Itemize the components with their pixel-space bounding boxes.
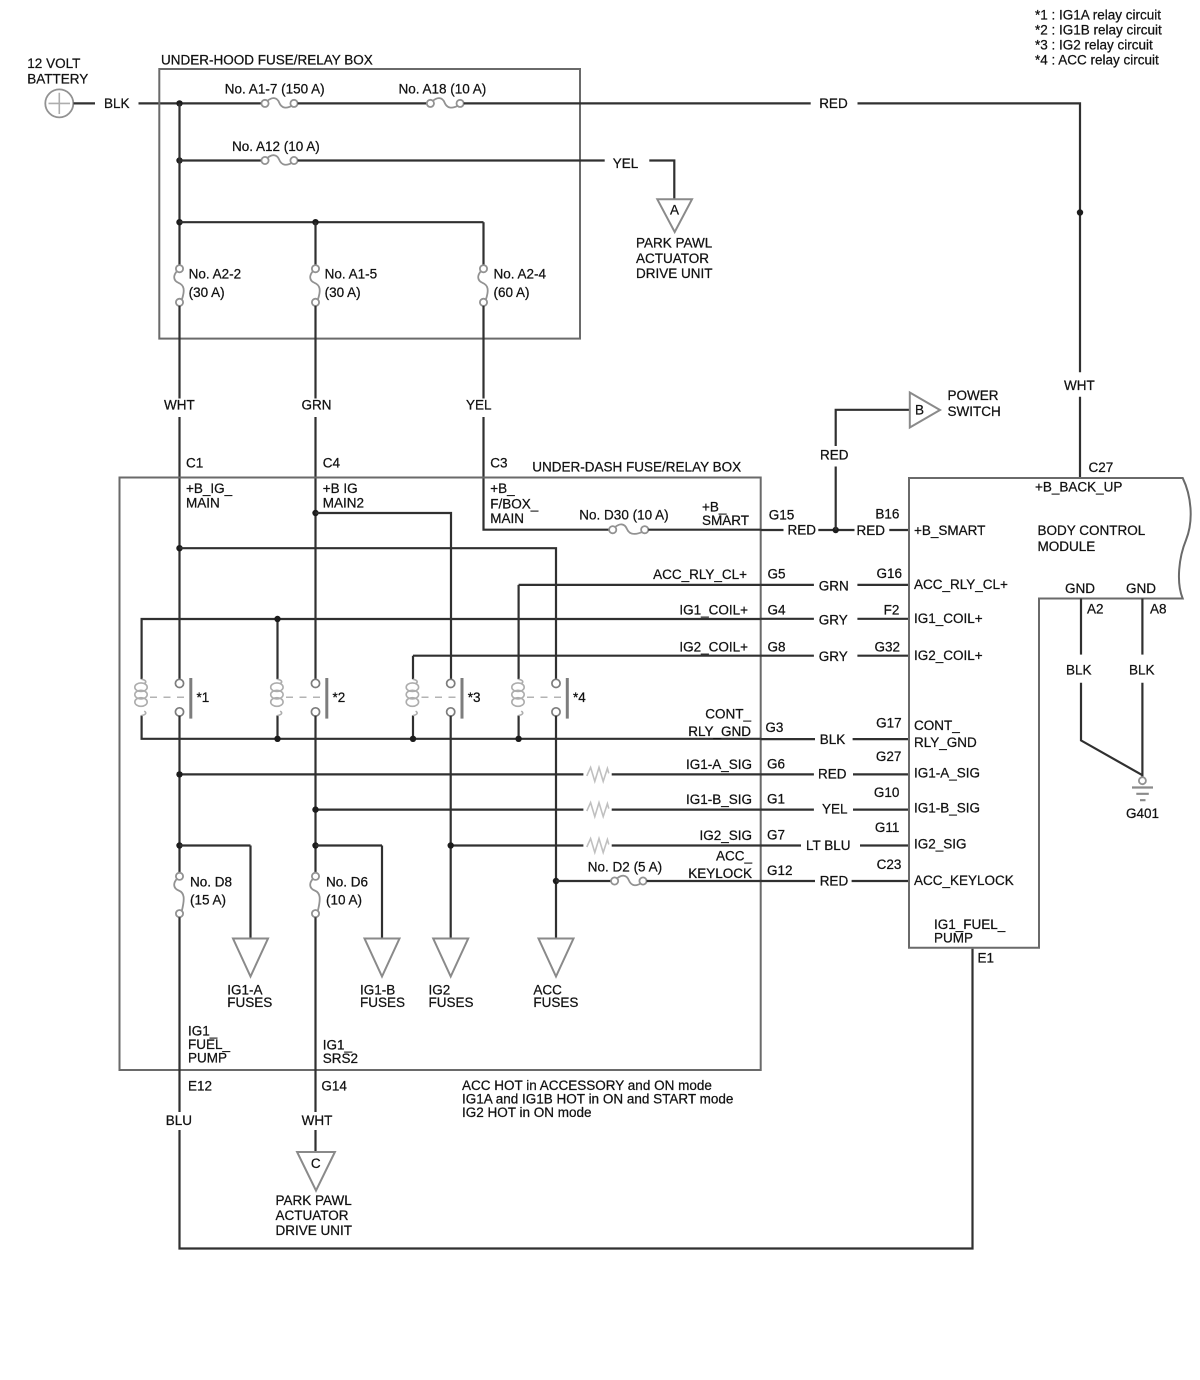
svg-text:(10 A): (10 A) <box>326 892 362 907</box>
relay *1 IG1A <box>135 678 209 719</box>
fuse No. D30 (10 A) <box>579 508 668 534</box>
wire IG1_COIL+ bus to relay 1 and 2 coils <box>142 619 761 679</box>
svg-text:IG1-B_SIG: IG1-B_SIG <box>914 801 980 816</box>
svg-text:BLK: BLK <box>820 732 846 747</box>
svg-text:RED: RED <box>819 96 848 111</box>
svg-text:MAIN2: MAIN2 <box>323 496 364 511</box>
label PARK PAWL ACTUATOR DRIVE UNIT (top) <box>636 236 713 282</box>
svg-text:WHT: WHT <box>1064 378 1095 393</box>
wire D30 to G15 pin <box>648 529 760 531</box>
wire relay2 contact down <box>314 716 316 873</box>
svg-text:DRIVE UNIT: DRIVE UNIT <box>636 266 713 281</box>
svg-text:POWER: POWER <box>948 388 999 403</box>
svg-text:*3: *3 <box>468 690 481 705</box>
svg-text:BODY CONTROL: BODY CONTROL <box>1038 523 1146 538</box>
svg-text:G14: G14 <box>321 1078 347 1093</box>
svg-text:YEL: YEL <box>613 156 639 171</box>
resistor coil IG1-A_SIG <box>587 767 609 781</box>
svg-text:B: B <box>915 403 924 418</box>
svg-text:No. A1-7 (150 A): No. A1-7 (150 A) <box>225 81 325 96</box>
svg-text:MAIN: MAIN <box>490 511 524 526</box>
node junction on right red wire <box>1077 209 1083 215</box>
svg-text:(30 A): (30 A) <box>325 285 361 300</box>
svg-text:GND: GND <box>1065 581 1095 596</box>
node junction col2 IG1-B fuses branch <box>312 842 318 848</box>
under-hood fuse/relay box outline <box>159 69 580 339</box>
svg-text:G6: G6 <box>767 756 785 771</box>
node junction col1 IG1-A fuses branch <box>176 842 182 848</box>
fuse No. A1-5 (30 A) <box>310 265 377 306</box>
svg-text:FUSES: FUSES <box>429 995 474 1010</box>
svg-text:+B_: +B_ <box>490 481 515 496</box>
wire ACC keylock to D2 fuse <box>556 880 611 882</box>
svg-text:G7: G7 <box>767 828 785 843</box>
connector C triangle <box>297 1152 335 1191</box>
svg-text:BLK: BLK <box>104 96 130 111</box>
svg-text:IG1-A_SIG: IG1-A_SIG <box>686 757 752 772</box>
svg-text:F2: F2 <box>884 602 900 617</box>
svg-text:ACC_RLY_CL+: ACC_RLY_CL+ <box>653 567 747 582</box>
svg-text:C4: C4 <box>323 455 341 470</box>
svg-text:RED: RED <box>820 447 849 462</box>
svg-text:MAIN: MAIN <box>186 496 220 511</box>
node junction relay4 coil bottom <box>515 736 521 742</box>
svg-text:E1: E1 <box>978 951 995 966</box>
svg-text:LT BLU: LT BLU <box>806 838 851 853</box>
wire E12 BLU to E1 bottom run <box>180 949 973 1249</box>
svg-text:PARK PAWL: PARK PAWL <box>276 1193 353 1208</box>
svg-text:No. D6: No. D6 <box>326 874 368 889</box>
relay *4 ACC <box>512 678 586 719</box>
svg-text:No. A18 (10 A): No. A18 (10 A) <box>399 81 487 96</box>
svg-text:SMART: SMART <box>702 513 749 528</box>
svg-text:ACC_RLY_CL+: ACC_RLY_CL+ <box>914 577 1008 592</box>
svg-text:C3: C3 <box>490 455 507 470</box>
node junction row3 col2 <box>312 219 318 225</box>
label CONT_RLY_GND (under-dash) <box>688 707 751 739</box>
wire A8 ground BLK lower <box>1141 683 1143 777</box>
wire G8 to G32 <box>761 655 909 657</box>
wire row3 horizontal bus <box>180 221 484 223</box>
fuse No. A12 (10 A) <box>232 139 320 165</box>
svg-text:YEL: YEL <box>822 802 848 817</box>
wire A12 to YEL label <box>298 159 605 161</box>
svg-text:IG2_COIL+: IG2_COIL+ <box>679 639 748 654</box>
svg-text:BLK: BLK <box>1129 662 1155 677</box>
svg-text:G15: G15 <box>769 508 795 523</box>
label IG1_FUEL_PUMP (under-dash) <box>188 1024 231 1066</box>
wire relay4 contact down to ACC fuses <box>555 716 557 939</box>
fuse No. D6 (10 A) <box>310 873 368 918</box>
wire CONT_RLY_GND coil ground bus <box>142 716 761 739</box>
wire column1 vertical battery bus <box>178 103 180 265</box>
svg-text:CONT_: CONT_ <box>705 707 751 722</box>
label IG1_FUEL_PUMP (BCM) <box>934 917 1006 946</box>
svg-text:WHT: WHT <box>302 1113 333 1128</box>
svg-text:IG1-B_SIG: IG1-B_SIG <box>686 792 752 807</box>
node junction relay2 coil bottom <box>274 736 280 742</box>
svg-text:ACC_: ACC_ <box>716 849 753 864</box>
svg-text:ACTUATOR: ACTUATOR <box>276 1208 349 1223</box>
svg-text:G16: G16 <box>876 566 902 581</box>
wire col2 GRN to relay 2 contact <box>314 417 316 679</box>
svg-text:+B_SMART: +B_SMART <box>914 523 985 538</box>
svg-text:G8: G8 <box>768 639 786 654</box>
svg-text:*2: *2 <box>333 690 346 705</box>
node junction relay2 to IG1-B_SIG <box>312 806 318 812</box>
svg-text:IG2_COIL+: IG2_COIL+ <box>914 648 983 663</box>
svg-text:G27: G27 <box>876 749 902 764</box>
label +B IG MAIN2 <box>323 481 364 511</box>
svg-text:PARK PAWL: PARK PAWL <box>636 236 713 251</box>
svg-text:KEYLOCK: KEYLOCK <box>688 866 752 881</box>
svg-text:G32: G32 <box>874 639 900 654</box>
wire G12 to C23 <box>761 880 909 882</box>
wire A2 ground BLK lower <box>1081 683 1142 775</box>
svg-text:C: C <box>311 1156 321 1171</box>
svg-text:ACC_KEYLOCK: ACC_KEYLOCK <box>914 873 1014 888</box>
svg-text:PUMP: PUMP <box>934 931 973 946</box>
label CONT_RLY_GND (BCM) <box>914 718 977 750</box>
battery B1 12 VOLT BATTERY <box>27 56 88 117</box>
wire col1 below fuse to WHT <box>178 306 180 399</box>
svg-text:G17: G17 <box>876 715 902 730</box>
wire relay1 contact down <box>178 716 180 873</box>
fuse No. D8 (15 A) <box>174 873 232 918</box>
svg-text:UNDER-HOOD FUSE/RELAY BOX: UNDER-HOOD FUSE/RELAY BOX <box>161 53 373 68</box>
svg-text:G12: G12 <box>767 863 793 878</box>
wire column2 vertical <box>314 222 316 265</box>
svg-text:GND: GND <box>1126 581 1156 596</box>
wire MAIN2 branch to relay 3 contact <box>316 513 452 679</box>
svg-text:RED: RED <box>857 523 886 538</box>
label IG1_SRS2 <box>323 1037 358 1066</box>
fuse triangle IG1-A FUSES <box>227 939 272 1011</box>
svg-text:G11: G11 <box>875 820 900 835</box>
svg-text:RED: RED <box>788 523 817 538</box>
node junction row3 col1 <box>176 219 182 225</box>
wire YEL to connector A <box>649 161 674 200</box>
wire col2 below fuse to GRN <box>314 306 316 399</box>
svg-text:No. D8: No. D8 <box>190 874 232 889</box>
svg-text:UNDER-DASH FUSE/RELAY BOX: UNDER-DASH FUSE/RELAY BOX <box>532 459 741 474</box>
svg-text:WHT: WHT <box>164 398 195 413</box>
wire BLK to under-hood box <box>139 102 262 104</box>
label POWER SWITCH <box>948 388 1001 419</box>
node junction col2 MAIN2 branch <box>312 510 318 516</box>
legend relay circuit notes <box>1035 8 1162 68</box>
wire A18 to RED label <box>464 102 811 104</box>
svg-text:IG1_COIL+: IG1_COIL+ <box>679 603 748 618</box>
svg-text:G5: G5 <box>768 566 786 581</box>
svg-text:BLU: BLU <box>166 1113 192 1128</box>
wire G7 to G11 <box>761 844 909 846</box>
svg-text:A: A <box>670 203 679 218</box>
node junction relay3 coil bottom <box>410 736 416 742</box>
svg-text:No. D30 (10 A): No. D30 (10 A) <box>579 508 668 523</box>
wire G5 to G16 <box>761 584 909 586</box>
under-dash fuse/relay box outline <box>120 478 761 1071</box>
relay *3 IG2 <box>406 678 480 719</box>
wire IG1-B_SIG inside box <box>316 808 761 810</box>
svg-text:RLY_GND: RLY_GND <box>688 724 751 739</box>
svg-text:+B IG: +B IG <box>323 481 358 496</box>
node junction relay4 to ACC keylock <box>553 878 559 884</box>
wire G14 WHT to connector C <box>314 1130 316 1152</box>
wire G15 to B16 +B_SMART row <box>761 529 909 531</box>
svg-text:C1: C1 <box>186 455 203 470</box>
svg-text:*1: *1 <box>197 690 210 705</box>
svg-text:GRY: GRY <box>819 649 848 664</box>
node junction relay1 to IG1-A_SIG <box>176 771 182 777</box>
svg-text:RLY_GND: RLY_GND <box>914 735 977 750</box>
svg-text:IG2_SIG: IG2_SIG <box>914 837 967 852</box>
svg-text:A2: A2 <box>1087 602 1104 617</box>
fuse triangle IG1-B FUSES <box>360 939 405 1011</box>
fuse triangle ACC FUSES <box>533 939 578 1011</box>
wire battery positive lead <box>74 102 96 104</box>
body control module outline <box>909 478 1191 948</box>
resistor coil IG2_SIG <box>587 839 609 853</box>
svg-text:12 VOLT: 12 VOLT <box>27 56 80 71</box>
svg-text:A8: A8 <box>1150 602 1167 617</box>
svg-text:BATTERY: BATTERY <box>27 71 88 86</box>
ground G401 symbol <box>1126 777 1159 821</box>
svg-text:CONT_: CONT_ <box>914 718 960 733</box>
wire G3 to G17 <box>761 738 909 740</box>
label PARK PAWL ACTUATOR DRIVE UNIT (bottom) <box>276 1193 353 1238</box>
wire branch to IG1-B fuses triangle <box>316 846 383 939</box>
svg-text:C23: C23 <box>877 857 902 872</box>
svg-text:IG1_COIL+: IG1_COIL+ <box>914 611 983 626</box>
wire G6 to G27 <box>761 773 909 775</box>
svg-text:(30 A): (30 A) <box>189 285 225 300</box>
svg-text:RED: RED <box>820 874 849 889</box>
wire col2 below D6 to G14 and WHT <box>314 917 316 1112</box>
svg-text:G10: G10 <box>874 785 900 800</box>
wire col1 WHT to relay 1 contact <box>178 417 180 679</box>
label ACC_KEYLOCK (under-dash) <box>688 849 752 882</box>
node junction battery bus row2 <box>176 157 182 163</box>
svg-text:MODULE: MODULE <box>1038 539 1096 554</box>
svg-text:RED: RED <box>818 766 847 781</box>
label +B_IG_MAIN <box>186 481 233 511</box>
wire A2 ground BLK upper <box>1080 599 1082 655</box>
wire power switch vertical <box>836 410 910 530</box>
svg-text:IG2 HOT in ON mode: IG2 HOT in ON mode <box>462 1105 592 1120</box>
fuse No. A1-7 (150 A) <box>225 81 325 107</box>
node junction relay2 coil top <box>274 616 280 622</box>
svg-text:No. D2 (5 A): No. D2 (5 A) <box>588 859 662 874</box>
svg-text:*4: *4 <box>573 690 586 705</box>
wire col3 below fuse to YEL <box>482 306 484 399</box>
svg-text:BLK: BLK <box>1066 662 1092 677</box>
wire branch to IG1-A fuses triangle <box>180 846 251 939</box>
resistor coil IG1-B_SIG <box>587 803 609 817</box>
fuse No. A2-4 (60 A) <box>478 265 546 306</box>
svg-text:FUSES: FUSES <box>360 995 405 1010</box>
node junction col1 +B_IG_MAIN bus <box>176 545 182 551</box>
wire IG2_COIL+ row to relay 3 coil <box>413 656 761 680</box>
svg-text:(60 A): (60 A) <box>494 285 530 300</box>
svg-text:FUSES: FUSES <box>227 995 272 1010</box>
wire relay3 contact down to IG2 fuses <box>450 716 452 939</box>
svg-text:FUSES: FUSES <box>533 995 578 1010</box>
wire ACC_RLY_CL+ row to relay 4 coil <box>519 585 761 679</box>
svg-text:SRS2: SRS2 <box>323 1051 358 1066</box>
label BODY CONTROL MODULE <box>1038 523 1146 554</box>
wire WHT down to C27 <box>1079 397 1081 478</box>
svg-text:IG2_SIG: IG2_SIG <box>699 828 752 843</box>
svg-text:SWITCH: SWITCH <box>948 404 1001 419</box>
wire +B_IG_MAIN bus to relay 4 contact <box>180 548 557 679</box>
svg-text:YEL: YEL <box>466 398 492 413</box>
fuse No. D2 (5 A) <box>588 859 662 885</box>
svg-text:E12: E12 <box>188 1078 212 1093</box>
relay *2 IG1B <box>271 678 346 719</box>
svg-text:*1 : IG1A relay circuit: *1 : IG1A relay circuit <box>1035 8 1161 23</box>
wire IG1-A_SIG inside box <box>180 773 761 775</box>
svg-text:GRN: GRN <box>302 398 332 413</box>
svg-text:No. A2-4: No. A2-4 <box>494 267 547 282</box>
fuse No. A2-2 (30 A) <box>174 265 241 306</box>
svg-text:*2 : IG1B relay circuit: *2 : IG1B relay circuit <box>1035 23 1162 38</box>
svg-text:B16: B16 <box>875 507 899 522</box>
svg-text:No. A12 (10 A): No. A12 (10 A) <box>232 139 320 154</box>
svg-text:G401: G401 <box>1126 806 1159 821</box>
svg-text:DRIVE UNIT: DRIVE UNIT <box>276 1223 353 1238</box>
wire IG2_SIG inside box <box>451 844 761 846</box>
svg-text:IG1-A_SIG: IG1-A_SIG <box>914 765 980 780</box>
wire between fuses A1-7 and A18 <box>298 102 427 104</box>
connector A triangle <box>657 199 692 232</box>
label +B_F/BOX_MAIN <box>490 481 539 526</box>
svg-text:GRN: GRN <box>819 578 849 593</box>
svg-text:F/BOX_: F/BOX_ <box>490 497 539 512</box>
wire col3 YEL to D30 fuse <box>484 417 610 530</box>
wire D2 fuse to G12 pin <box>647 880 761 882</box>
svg-text:G1: G1 <box>767 792 785 807</box>
wire col1 below D8 to E12 and BLU <box>178 917 180 1112</box>
wire row2 to fuse A12 <box>180 159 262 161</box>
svg-text:+B_BACK_UP: +B_BACK_UP <box>1035 480 1122 495</box>
node junction relay3 to IG2_SIG <box>448 842 454 848</box>
svg-text:No. A1-5: No. A1-5 <box>325 267 378 282</box>
wire G4 to F2 <box>761 618 909 620</box>
svg-text:No. A2-2: No. A2-2 <box>189 267 242 282</box>
wire G1 to G10 <box>761 808 909 810</box>
wire A8 ground BLK upper <box>1141 599 1143 655</box>
svg-text:PUMP: PUMP <box>188 1051 227 1066</box>
wire column3 corner from row3 <box>482 222 484 265</box>
fuse No. A18 (10 A) <box>399 81 487 107</box>
svg-text:C27: C27 <box>1089 460 1114 475</box>
wire RED to right corner down to WHT <box>858 103 1081 372</box>
svg-text:G4: G4 <box>768 602 787 617</box>
svg-text:GRY: GRY <box>819 612 848 627</box>
connector B triangle power switch <box>910 393 940 428</box>
svg-text:G3: G3 <box>765 720 783 735</box>
svg-text:ACTUATOR: ACTUATOR <box>636 251 709 266</box>
svg-text:*3 : IG2 relay circuit: *3 : IG2 relay circuit <box>1035 38 1153 53</box>
note ACC HOT modes <box>462 1078 733 1120</box>
fuse triangle IG2 FUSES <box>429 939 474 1011</box>
node junction battery bus top <box>176 100 182 106</box>
svg-text:+B_IG_: +B_IG_ <box>186 481 233 496</box>
svg-text:(15 A): (15 A) <box>190 892 226 907</box>
node junction power switch tap <box>833 527 839 533</box>
svg-text:*4 : ACC relay circuit: *4 : ACC relay circuit <box>1035 53 1159 68</box>
label +B_SMART (under-dash) <box>702 500 749 528</box>
